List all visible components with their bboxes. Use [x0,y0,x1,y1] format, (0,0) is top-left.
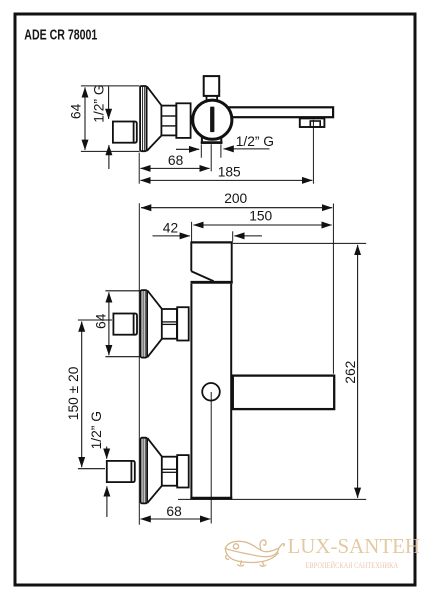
svg-text:185: 185 [218,165,241,180]
body column bottom thick edge (front) [190,497,232,500]
dim 150 line [193,224,331,226]
dim 200 line [141,207,332,209]
svg-text:68: 68 [166,504,182,519]
ext line wall (plan) [138,153,140,184]
svg-text:ЕВРОПЕЙСКАЯ САНТЕХНИКА: ЕВРОПЕЙСКАЯ САНТЕХНИКА [306,561,399,570]
ext line aerator center (plan) [312,120,314,184]
upper inlet pipe cap (front) [134,314,137,335]
cartridge slot (plan) [210,107,214,133]
dim 64 line (plan) [84,87,86,149]
outlet 1/2 G below valve (plan) [202,135,221,143]
ext line wall vertical (front) [138,203,140,525]
upper rim inner lines (front) [142,291,144,358]
inlet pipe cap (plan) [134,122,137,143]
leader 1/2 G outlet, right-pointing arrow (plan) [176,148,199,150]
dim 64 ext lines (front) [105,290,140,292]
ext line valve center (plan) [210,144,212,171]
label 1/2 G lower up arrow (front) [106,486,108,517]
label 1/2 G lower down arrow (front) [106,447,108,459]
upper collar (front) [177,307,189,340]
upper inlet pipe (front) [113,314,133,335]
svg-text:150 ± 20: 150 ± 20 [66,366,81,420]
knob stem (plan) [206,96,208,101]
handle block top edge (front) [191,241,233,243]
svg-text:1/2” G: 1/2” G [236,134,274,149]
valve body circle (plan) [193,100,232,139]
svg-text:64: 64 [94,313,109,329]
watermark bathtub icon [225,540,284,566]
leader 1/2 G outlet, left-pointing arrow (plan) [224,148,270,150]
lower flange cone (front) [147,438,162,457]
upper nut flats (front) [162,321,176,323]
dim 185 line (plan) [140,179,312,181]
ext line outlet-right (plan) [220,144,222,157]
screw circle (front) [202,383,220,401]
ext line spout end vertical (front) [332,204,334,374]
body column right edge (front) [230,284,232,500]
aerator insert (plan) [310,121,320,127]
svg-text:1/2” G: 1/2” G [91,84,106,122]
outlet bottom thick edge (plan) [201,141,223,144]
dim 42 right arrow [234,235,262,237]
svg-text:42: 42 [163,220,178,235]
svg-text:ADE CR 78001: ADE CR 78001 [24,27,97,43]
ext line outlet-left (plan) [200,144,202,157]
svg-text:262: 262 [343,361,358,384]
dim 150+-20 ext lines [78,319,112,321]
handle block left edge (front) [190,242,192,272]
svg-text:200: 200 [224,191,247,206]
dim 262 bottom ext line [178,498,366,500]
svg-text:1/2” G: 1/2” G [89,411,104,449]
flange cone (plan) [147,86,162,105]
upper connection nut (front) [162,309,177,339]
lower flange rim (front) [141,438,148,504]
ext line handle-right (front) [232,231,234,241]
inlet pipe (plan) [113,122,134,143]
lower inlet pipe (front) [107,461,132,482]
svg-text:64: 64 [69,103,84,119]
upper flange rim (front) [141,290,148,358]
aerator housing (plan) [300,118,325,127]
dim 262 top ext line [233,242,366,244]
label 1/2 G inlet down arrow (plan) [108,86,110,119]
lower nut flats (front) [162,468,176,470]
label 1/2 G inlet up arrow (plan) [108,145,110,169]
lower connection nut (front) [162,457,177,486]
svg-text:LUX-SANTEH: LUX-SANTEH [288,534,421,558]
dim 68 line (front) [141,518,211,520]
handle block right edge (front) [231,242,233,284]
spout (plan) [226,107,333,117]
dim 42 left arrow [153,235,190,237]
dim 68 line (plan) [140,167,209,169]
dim 150+-20 line [81,322,83,468]
connection nut (plan) [161,106,176,136]
body center line down to dim 68 (front) [210,392,212,524]
handle block bottom thick edge (front) [191,281,233,284]
nut flats (plan) [162,115,176,117]
dim 64 line (front) [108,292,110,355]
upper flange cone (front) [147,291,162,309]
spout (front) [233,376,334,410]
svg-text:68: 68 [168,153,184,168]
dim 64 extension lines (plan) [81,85,140,87]
lower inlet pipe cap (front) [132,461,135,482]
lower collar (front) [177,455,189,487]
wall flange rim (plan) [140,86,147,151]
lower rim inner lines (front) [142,438,144,503]
collar (plan) [176,103,190,138]
handle underside diagonal (front) [191,271,213,281]
dim 262 line [357,245,359,498]
svg-text:150: 150 [249,208,272,223]
body column left edge (front) [190,284,192,500]
ext line handle-left (front) [191,222,193,242]
diverter knob (plan) [204,76,220,96]
flange rim inner lines (plan) [142,86,144,150]
